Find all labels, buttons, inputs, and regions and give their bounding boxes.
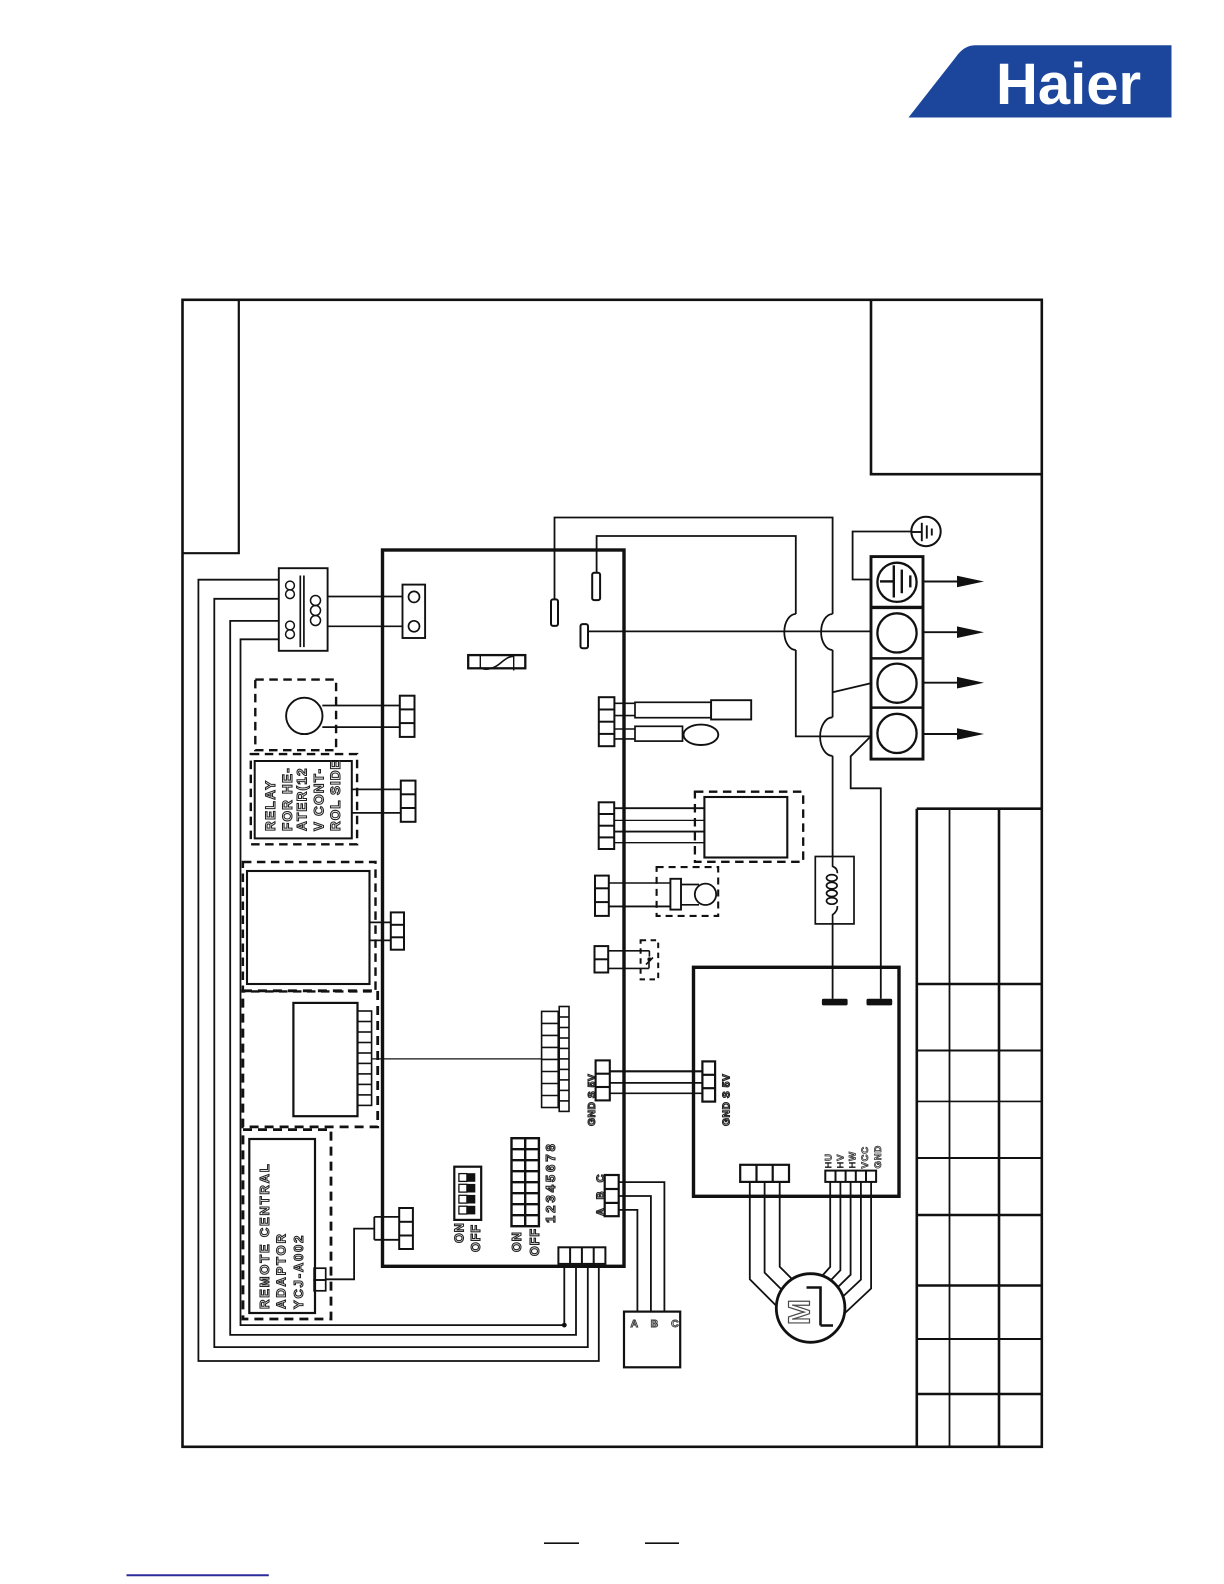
motor M1 circle [776,1274,845,1343]
terminal row3 circle [877,664,916,703]
wire remote adaptor to CN-remote [326,1229,375,1280]
svg-text:GND S 5V: GND S 5V [722,1074,733,1126]
wire J3 to terminal row2 [588,630,871,632]
connector CN-GS1 3 cells [596,1060,610,1100]
wire transformer secondary to terminal lower [328,625,403,627]
bar terminal 1 [822,999,848,1006]
svg-text:M: M [782,1299,817,1325]
svg-text:REMOTE CENTRAL: REMOTE CENTRAL [257,1162,272,1309]
motor label 1 [807,1288,834,1326]
IC module box [704,797,787,858]
earth symbol in pigtail [912,523,932,541]
page footer mark right [645,1542,679,1544]
wire display header to main header [372,1058,542,1060]
wire CN-ABC pin2 to ABC box [619,1196,651,1312]
hop of J2 wire over row2 wire [784,614,796,650]
transformer primary coil loops [286,581,295,590]
main pin header right col 10 cells [559,1007,569,1112]
svg-text:12345678: 12345678 [543,1141,558,1223]
wire fan to connector lower [322,726,400,728]
wire transformer pin1 to bottom connector pin4 [198,580,598,1361]
connector CN-disp 4 cells [599,802,615,849]
svg-text:ATER(12: ATER(12 [295,767,310,831]
page footer mark left [544,1542,579,1544]
wire transformer pin3 to bottom connector pin2 [230,621,576,1335]
svg-text:ON: ON [510,1231,524,1252]
wires CN-sw to switch [608,950,649,952]
terminal row2 circle [877,613,916,652]
svg-text:ADAPTOR: ADAPTOR [274,1232,289,1309]
dashed box relay for heater [251,754,357,844]
wire transformer secondary to terminal upper [328,596,403,598]
room sensor plug tip [695,884,716,905]
dashed box fan option [255,680,336,751]
DIP switch SW2 (8 pos) [512,1138,539,1226]
room sensor plug collar [670,879,681,910]
wire CN-ABC pin1 to ABC box [619,1182,665,1312]
wire J2 to terminal row4 [597,536,871,736]
wire relay to connector lower [352,812,401,814]
dashed box remote central adaptor [243,1130,331,1319]
remote adaptor inner box [249,1139,315,1313]
connector CN-motor5 [825,1171,876,1182]
terminal row1 circle with earth [877,563,916,602]
top-left spare column box [183,300,239,553]
svg-text:ROL SIDE: ROL SIDE [328,759,343,831]
wire transformer pin2 to bottom connector pin3 [214,599,588,1347]
arrow row3 [923,682,958,684]
connector CN-relay 3 cells [401,781,416,822]
svg-text:OFF: OFF [469,1224,483,1252]
svg-text:V CONT-: V CONT- [312,768,327,831]
diagram outer border [183,300,1042,1447]
svg-text:HW: HW [848,1151,859,1168]
branch from row4 down to bar2 [851,738,881,999]
top-right legend box [871,300,1042,474]
relay inner box [255,761,352,838]
Haier logo flag shape [909,45,1172,117]
dashed box display unit [243,991,378,1127]
connector CN-sw 2 cells [595,946,609,972]
junction dot on pin1 wire [562,1323,567,1328]
temp sensor 2 bulb [684,725,719,745]
jumper J1 [551,599,558,626]
jumper J3 [581,624,589,648]
transformer secondary coil loops [311,596,321,606]
wire fan to connector upper [322,705,400,707]
transformer T1 box [279,568,328,651]
svg-text:HV: HV [836,1154,847,1169]
wire CN-ABC pin3 to ABC box [619,1210,638,1312]
svg-text:OFF: OFF [528,1228,542,1256]
motor wires left [750,1182,777,1306]
pin header on display unit [358,1011,372,1105]
fuse F1 [468,655,525,670]
dashed box protector switch [641,940,659,979]
bar terminal 2 [867,999,893,1006]
big hop of J1 wire over row4 wire [820,717,833,756]
jumper J2 [592,573,600,600]
wire relay to connector upper [352,788,401,790]
svg-text:VCC: VCC [860,1146,871,1168]
legend table [917,809,1042,1447]
svg-text:GND: GND [873,1145,884,1169]
svg-text:RELAY: RELAY [263,779,278,831]
DIP switch SW1 (4 pos) [454,1167,481,1220]
svg-text:Haier: Haier [996,52,1141,117]
svg-text:ON: ON [453,1222,467,1243]
dashed box aux module [243,862,376,991]
arrow row2 [923,631,958,633]
connector CN-room 3 cells [595,876,609,916]
connector CN-fan 3 cells [400,696,415,737]
connector CN-GS2 3 cells [702,1061,715,1101]
footer blue rule [127,1574,269,1576]
choke coil loops [833,857,838,874]
wires CN-room to plug [609,882,671,884]
protector switch symbol [648,951,650,957]
temp sensor 1 head [711,700,751,719]
hop of J1 wire over row2 wire [821,614,832,650]
wire choke to bar1 [832,924,834,999]
connector CN-ABC 3 cells [605,1175,619,1216]
svg-text:FOR HE-: FOR HE- [280,767,295,831]
main pin header left col 8 cells [542,1011,559,1107]
earth pigtail circle [911,517,940,546]
wire aux to connector upper [370,921,391,923]
main PCB outline [383,550,625,1266]
wire earth pigtail to terminal row1 [853,532,912,580]
wire aux to connector lower [370,939,391,941]
fan motor circle [286,698,322,734]
svg-text:HU: HU [824,1153,835,1168]
temp sensor rod 2 [635,726,683,741]
connector CN-motor3 [740,1165,789,1182]
arrow row4 [923,733,958,735]
choke coil box [815,857,854,924]
terminal block CN-AC on PCB [403,585,426,638]
branch diagonal to terminal row3 [833,683,871,692]
fan control box [694,967,900,1196]
terminal row4 circle [877,714,916,753]
connector CN-remote 3 cells [399,1208,413,1249]
connector CN-aux 3 cells [391,912,404,949]
temp sensor rod 1 [635,702,711,717]
svg-text:A B C: A B C [631,1318,684,1330]
dashed box room sensor [657,867,719,916]
wires GND S 5V [610,1070,703,1072]
wire J1 to terminal row3 and down through hops [555,518,833,857]
wires CN-temp to sensors [614,702,635,704]
aux module inner box [247,871,370,984]
wires CN-disp to IC [614,807,704,809]
connector CN-bottom 4 cells [558,1247,605,1264]
room sensor plug body [681,884,699,886]
remote adaptor tabs [314,1268,326,1280]
wire transformer pin4 to bottom connector pin1 [241,639,565,1325]
terminal block TB1 [871,557,923,760]
display inner box [293,1003,357,1116]
svg-text:YCJ-A002: YCJ-A002 [291,1234,306,1309]
connector CN-temp 4 cells [599,697,615,746]
ABC box [624,1312,680,1368]
transformer core [299,576,301,648]
motor wires right [822,1182,830,1276]
dashed box IC module [695,792,803,862]
arrow row1 [923,581,958,583]
